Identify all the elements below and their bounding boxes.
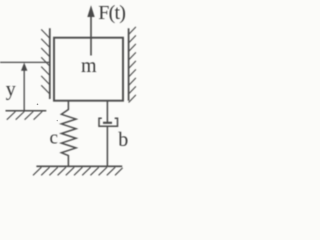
svg-text:b: b — [118, 129, 128, 151]
svg-text:m: m — [81, 55, 97, 77]
svg-text:y: y — [6, 78, 16, 100]
damper piston plate — [103, 122, 112, 124]
damper b — [99, 101, 118, 167]
scan speck — [37, 104, 39, 106]
force arrow F(t) — [87, 5, 94, 55]
y reference line — [0, 61, 50, 63]
bottom ground — [33, 166, 123, 175]
damper bottom rod — [106, 126, 108, 166]
left wall — [41, 28, 50, 99]
mass m box — [54, 38, 123, 101]
svg-text:c: c — [50, 127, 58, 148]
scan speck — [57, 120, 58, 121]
right wall — [129, 27, 136, 103]
damper top rod — [106, 101, 108, 123]
y arrow — [21, 63, 27, 111]
spring c — [61, 101, 76, 167]
left ground under y arrow — [6, 111, 47, 120]
damper cylinder cup — [99, 118, 118, 126]
svg-text:F(t): F(t) — [98, 2, 125, 24]
